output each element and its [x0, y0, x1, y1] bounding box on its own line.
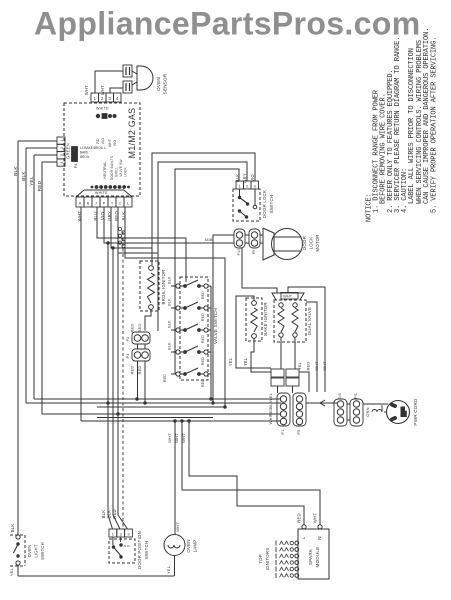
label BAKE IGNITOR [263, 302, 268, 336]
label BLK GRY VIO [235, 173, 255, 183]
svg-text:BROIL IGNITOR: BROIL IGNITOR [161, 269, 166, 304]
label DUAL VALVE [307, 307, 312, 335]
svg-text:P4: P4 [74, 164, 78, 169]
wire lamp top WHT [167, 419, 186, 534]
svg-text:RED: RED [297, 513, 302, 522]
svg-text:2: 2 [120, 532, 123, 537]
wire light switch bottom YEL [9, 565, 18, 576]
wire BLK down [125, 207, 225, 407]
door lock switch dashed box [233, 189, 260, 221]
dual valve coil 1 [278, 303, 284, 337]
wire BLU down [97, 207, 186, 282]
label DOOR LOCK SWITCH [262, 190, 274, 218]
dual valve coil 2 [292, 303, 298, 337]
power cord plug [387, 401, 410, 424]
connector GS [334, 393, 347, 426]
svg-text:1: 1 [60, 140, 64, 142]
connector board bottom strip [76, 190, 132, 207]
broil ignitor dashed box [140, 261, 159, 311]
wire P5 to GS [306, 400, 337, 406]
label OVEN SENSOR [156, 73, 168, 94]
wire broil bottom to P2 [145, 310, 151, 331]
svg-text:IGNITORS: IGNITORS [265, 548, 270, 571]
svg-text:WHT: WHT [84, 85, 89, 95]
svg-text:DUAL VALVE: DUAL VALVE [307, 307, 312, 335]
connector door position strip [109, 529, 132, 537]
svg-text:RED: RED [201, 313, 205, 321]
wire bus YEL [34, 398, 281, 400]
svg-text:BLK: BLK [168, 320, 172, 328]
svg-text:VIO: VIO [113, 140, 117, 147]
svg-text:VALVE SW: VALVE SW [119, 159, 123, 176]
wire GS-PS [347, 404, 350, 420]
svg-text:J: J [95, 202, 97, 206]
svg-text:RED: RED [37, 180, 43, 191]
connector P5 column [293, 393, 306, 435]
resistor broil ignitor [148, 266, 155, 310]
connector block A [271, 369, 284, 386]
svg-text:YEL: YEL [9, 567, 14, 576]
valve switch dashed box [180, 277, 208, 380]
connector PS [350, 393, 363, 426]
svg-text:BLK: BLK [235, 174, 240, 183]
svg-text:PS: PS [353, 393, 358, 399]
wire P2 to P3 [138, 344, 146, 349]
label OVEN LAMP [186, 539, 198, 552]
svg-text:BLK: BLK [268, 400, 273, 408]
switch valve switch contacts [171, 280, 211, 376]
svg-text:LAMP: LAMP [193, 540, 198, 553]
connector sensor plug bottom [123, 81, 132, 93]
svg-text:NEUTRAL: NEUTRAL [103, 161, 107, 178]
wire spark N WHT [182, 421, 320, 525]
wire BLK left bus 1 [13, 141, 57, 535]
wire GRY down [111, 207, 152, 248]
door lock motor bracket [263, 228, 274, 260]
wire bus mid2 [97, 417, 213, 419]
svg-text:DOOR: DOOR [302, 236, 307, 250]
svg-text:RED: RED [201, 357, 205, 365]
wire colB right [299, 372, 309, 392]
svg-text:GRY: GRY [243, 173, 248, 183]
oven light switch dashed box [10, 535, 25, 566]
svg-text:BLK: BLK [13, 166, 19, 176]
svg-text:GREEN: GREEN [66, 143, 71, 159]
wire RED left bus 4 [37, 162, 57, 414]
svg-text:RED: RED [137, 323, 142, 332]
label VIO wire [100, 212, 105, 221]
svg-text:YEL: YEL [29, 176, 35, 186]
wire to DLS pin1 [175, 169, 239, 374]
svg-text:YEL: YEL [228, 357, 233, 366]
svg-text:5. VERIFY PROPER OPERATION AFT: 5. VERIFY PROPER OPERATION AFTER SERVICI… [431, 37, 439, 213]
svg-text:AppliancePartsPros.com: AppliancePartsPros.com [34, 6, 421, 42]
svg-text:GRN: GRN [365, 407, 370, 417]
svg-text:L1 BAKE/BROIL L.: L1 BAKE/BROIL L. [80, 146, 107, 150]
svg-text:N.O.: N.O. [124, 544, 130, 548]
wire DPS BLK 1 [101, 241, 113, 529]
label GREEN [66, 143, 71, 159]
label PWR CORD [413, 398, 418, 426]
svg-text:P1: P1 [281, 429, 285, 434]
label bus BLK [268, 400, 273, 408]
svg-text:RED: RED [201, 335, 205, 343]
svg-text:WHITE: WHITE [95, 191, 108, 195]
svg-text:SENSOR: SENSOR [163, 73, 168, 94]
label M1B [205, 238, 213, 242]
label YEL RED WHT WHT [297, 361, 327, 371]
label DOOR POSITION SWITCH [137, 531, 149, 569]
connector P4 strip [57, 137, 65, 166]
svg-text:1: 1 [112, 532, 115, 537]
label TOP IGNITORS [258, 548, 270, 571]
connector P2 [126, 332, 150, 344]
svg-text:OVEN: OVEN [156, 77, 161, 91]
svg-text:RED: RED [201, 291, 205, 299]
svg-text:C: C [119, 202, 122, 206]
wire bus BLK [26, 402, 281, 404]
svg-text:WHT: WHT [100, 85, 105, 95]
svg-text:BLK: BLK [168, 298, 172, 306]
svg-text:1: 1 [239, 184, 242, 189]
connector P3 [126, 349, 150, 361]
svg-text:BROIL: BROIL [80, 155, 90, 159]
oven lamp [164, 535, 185, 556]
connector P10 pair [234, 229, 245, 255]
wire bake bottom [251, 339, 271, 373]
svg-text:2: 2 [246, 184, 249, 189]
note NOTICE block [366, 28, 439, 222]
label RED wire [114, 211, 119, 221]
wire sensor lead 1 WHT [84, 71, 123, 95]
svg-text:YEL: YEL [268, 392, 273, 401]
door position switch dashed box [109, 539, 135, 563]
wire WHT down [80, 207, 82, 421]
svg-text:GS: GS [337, 393, 342, 399]
svg-text:P10: P10 [237, 249, 241, 256]
node junction dots on buses [106, 397, 226, 422]
label bus WHT [268, 414, 273, 424]
svg-text:SWITCH: SWITCH [269, 195, 274, 214]
label BLK wire [121, 212, 126, 221]
svg-text:WHT: WHT [174, 433, 179, 443]
svg-text:RED: RED [112, 509, 117, 518]
svg-text:WHT: WHT [175, 522, 180, 532]
wire YEL left bus 3 [29, 155, 57, 399]
svg-text:BLK: BLK [168, 342, 172, 350]
wire P3 down 2 [144, 361, 146, 403]
connector spark terminals left [295, 541, 299, 577]
label M1/M2 GAS [127, 108, 137, 159]
wire blockA down [277, 386, 279, 393]
component P4 block [72, 147, 79, 169]
connector spark terminals top [301, 525, 322, 540]
svg-text:4: 4 [116, 96, 119, 101]
svg-text:3: 3 [109, 96, 112, 101]
label OVEN LIGHT SWITCH [27, 542, 45, 560]
svg-text:L: L [301, 536, 306, 539]
svg-text:MOTOR: MOTOR [315, 234, 320, 251]
label WHITE top [96, 107, 109, 111]
label L1 BAKE/BROIL [80, 146, 107, 159]
label valve switch wire colors [163, 276, 205, 387]
svg-text:WHT: WHT [313, 513, 318, 523]
control board M1/M2 GAS dashed box [64, 103, 140, 196]
label bus YEL [268, 392, 273, 401]
svg-text:P5: P5 [297, 429, 301, 434]
wire bottom run [18, 575, 174, 577]
spark module box [298, 529, 329, 579]
label SPARK MODULE [308, 547, 320, 568]
label WHT wire [77, 211, 82, 222]
svg-text:DOOR SW/LTS: DOOR SW/LTS [110, 156, 114, 180]
svg-text:M1B: M1B [205, 238, 213, 242]
svg-text:L: L [127, 202, 129, 206]
label RED RED P3 [130, 365, 143, 374]
connector block B [286, 369, 299, 386]
svg-text:WHT: WHT [283, 294, 293, 299]
door lock motor circle [272, 229, 303, 260]
svg-text:LABEL ALL WIRES PRIOR TO DISCO: LABEL ALL WIRES PRIOR TO DISCONNECTION [408, 48, 416, 204]
label YEL YEL [228, 357, 248, 366]
oven sensor bulb [132, 66, 153, 90]
wire sensor lead 2 WHT [100, 85, 123, 95]
svg-text:P3: P3 [126, 354, 130, 359]
wire motor feed 2 [213, 242, 234, 244]
connector P14 sensor strip 1-4 [91, 93, 121, 102]
svg-text:DOOR LOCK: DOOR LOCK [262, 190, 267, 218]
wire lamp bottom YEL [166, 556, 175, 577]
svg-text:RED: RED [130, 365, 135, 374]
label DOOR SWITCH LIGHTS [110, 156, 128, 180]
svg-text:N: N [317, 536, 322, 540]
wire VIO down [104, 207, 213, 243]
svg-text:WHITE: WHITE [96, 107, 109, 111]
wire dual valve right [306, 302, 317, 392]
svg-text:1: 1 [94, 96, 97, 101]
wire P3 down 1 [137, 361, 139, 399]
svg-text:BLK: BLK [168, 276, 172, 284]
svg-text:VIO: VIO [250, 174, 255, 182]
svg-text:LOCK: LOCK [309, 237, 314, 250]
svg-text:2: 2 [101, 96, 104, 101]
label GRY wire [107, 211, 112, 221]
svg-text:WHT: WHT [268, 414, 273, 424]
wire pair link [245, 235, 249, 243]
wire RED down [118, 207, 158, 253]
connector door lock switch strip [236, 181, 259, 189]
svg-text:OVEN: OVEN [186, 539, 191, 552]
component WHT terminal box [281, 293, 298, 300]
dual valve top bracket [272, 293, 304, 300]
top ignitors spark gaps [276, 541, 293, 579]
svg-text:LOCK: LOCK [124, 167, 128, 177]
svg-text:VALVE SWITCH: VALVE SWITCH [213, 308, 218, 344]
svg-text:P2: P2 [126, 337, 130, 342]
wire to DLS pin2 [158, 162, 247, 331]
svg-text:SWITCH: SWITCH [144, 541, 149, 560]
svg-text:WHT: WHT [167, 433, 172, 443]
bake ignitor dashed box [246, 298, 262, 341]
svg-text:RED: RED [306, 361, 311, 370]
label NEUTRAL [103, 161, 107, 178]
svg-text:VIO: VIO [101, 138, 105, 145]
label WHITE bottom [95, 191, 108, 195]
svg-text:P9: P9 [252, 250, 256, 255]
svg-text:YEL: YEL [243, 357, 248, 366]
wire chassis dashed [122, 232, 124, 529]
switch door lock contacts [238, 189, 257, 219]
wire light switch top [10, 524, 15, 533]
svg-text:M1/M2 GAS: M1/M2 GAS [127, 108, 137, 159]
label bus RED [268, 407, 273, 416]
svg-text:WHT: WHT [314, 361, 319, 371]
resistor bake ignitor [251, 301, 257, 339]
wire pair to valve [242, 248, 277, 293]
wire blockB down [292, 386, 294, 393]
svg-text:RED: RED [163, 374, 167, 382]
svg-text:3: 3 [60, 154, 64, 156]
wire bus RED [42, 413, 281, 415]
label BLU wire [93, 211, 98, 220]
wire spark L RED [189, 421, 304, 525]
svg-text:WHT: WHT [108, 139, 112, 147]
wire motor link [260, 235, 263, 243]
svg-text:OVEN: OVEN [27, 545, 32, 558]
svg-text:P: P [103, 202, 106, 206]
svg-text:MODULE: MODULE [315, 547, 320, 568]
wire DPS BLK 2 [107, 246, 121, 529]
component board contacts row [91, 185, 130, 189]
svg-text:WHT: WHT [322, 361, 327, 371]
label RED RED P2 [130, 323, 143, 332]
wire dual valve top WHT [288, 287, 325, 392]
svg-text:TOP: TOP [258, 554, 263, 564]
svg-text:BLK: BLK [107, 510, 112, 519]
svg-text:SWITCH: SWITCH [40, 542, 45, 560]
wire valve left common [174, 286, 176, 374]
svg-text:2: 2 [60, 147, 64, 149]
svg-text:T: T [111, 202, 114, 206]
wire motor feed 1 [213, 235, 234, 403]
svg-text:RED: RED [130, 323, 135, 332]
svg-text:BAKE: BAKE [80, 151, 89, 155]
svg-text:BAKE IGNITOR: BAKE IGNITOR [263, 302, 268, 336]
wire bake top [236, 296, 271, 368]
svg-text:SPARK: SPARK [308, 548, 313, 565]
header watermark AppliancePartsPros.com [34, 6, 421, 42]
svg-text:DOOR POSITION: DOOR POSITION [137, 531, 142, 569]
wire dual valve bottom 1 [280, 337, 282, 369]
svg-text:LIGHT: LIGHT [34, 544, 39, 558]
dual valve dashed box [274, 300, 306, 342]
svg-text:GRILL: GRILL [115, 167, 119, 177]
label DOOR LOCK MOTOR [302, 234, 320, 251]
label BROIL IGNITOR [161, 269, 166, 304]
switch door position contacts [112, 537, 131, 559]
connector P1 column [277, 393, 290, 435]
svg-text:BLK: BLK [10, 524, 15, 533]
svg-text:3: 3 [254, 184, 257, 189]
wire DPS RED [112, 253, 128, 529]
svg-text:4: 4 [60, 161, 64, 163]
svg-text:3: 3 [127, 532, 130, 537]
wire to DLS pin3 [152, 153, 255, 265]
connector P9 pair [249, 229, 260, 254]
svg-text:BLK: BLK [21, 171, 27, 181]
component wire chain [118, 227, 125, 247]
svg-text:A: A [79, 202, 82, 206]
switch oven light [14, 535, 21, 565]
svg-text:YEL: YEL [166, 565, 171, 574]
wire BLK left bus 2 [21, 148, 57, 403]
svg-text:B: B [87, 202, 90, 206]
wire dual valve bottom 2 [294, 337, 296, 369]
component board contacts P31 [96, 114, 117, 148]
wire PS to plug [363, 403, 388, 405]
svg-text:PWR CORD: PWR CORD [413, 398, 418, 426]
svg-text:RD: RD [96, 138, 100, 144]
wire valve right common [210, 286, 212, 399]
label VALVE SWITCH [213, 308, 218, 344]
label GRN coil [365, 405, 387, 417]
wire bus mid [97, 406, 225, 408]
svg-text:BLK: BLK [101, 510, 106, 519]
connector sensor plug top [123, 65, 132, 77]
wire bus WHT [81, 420, 281, 422]
